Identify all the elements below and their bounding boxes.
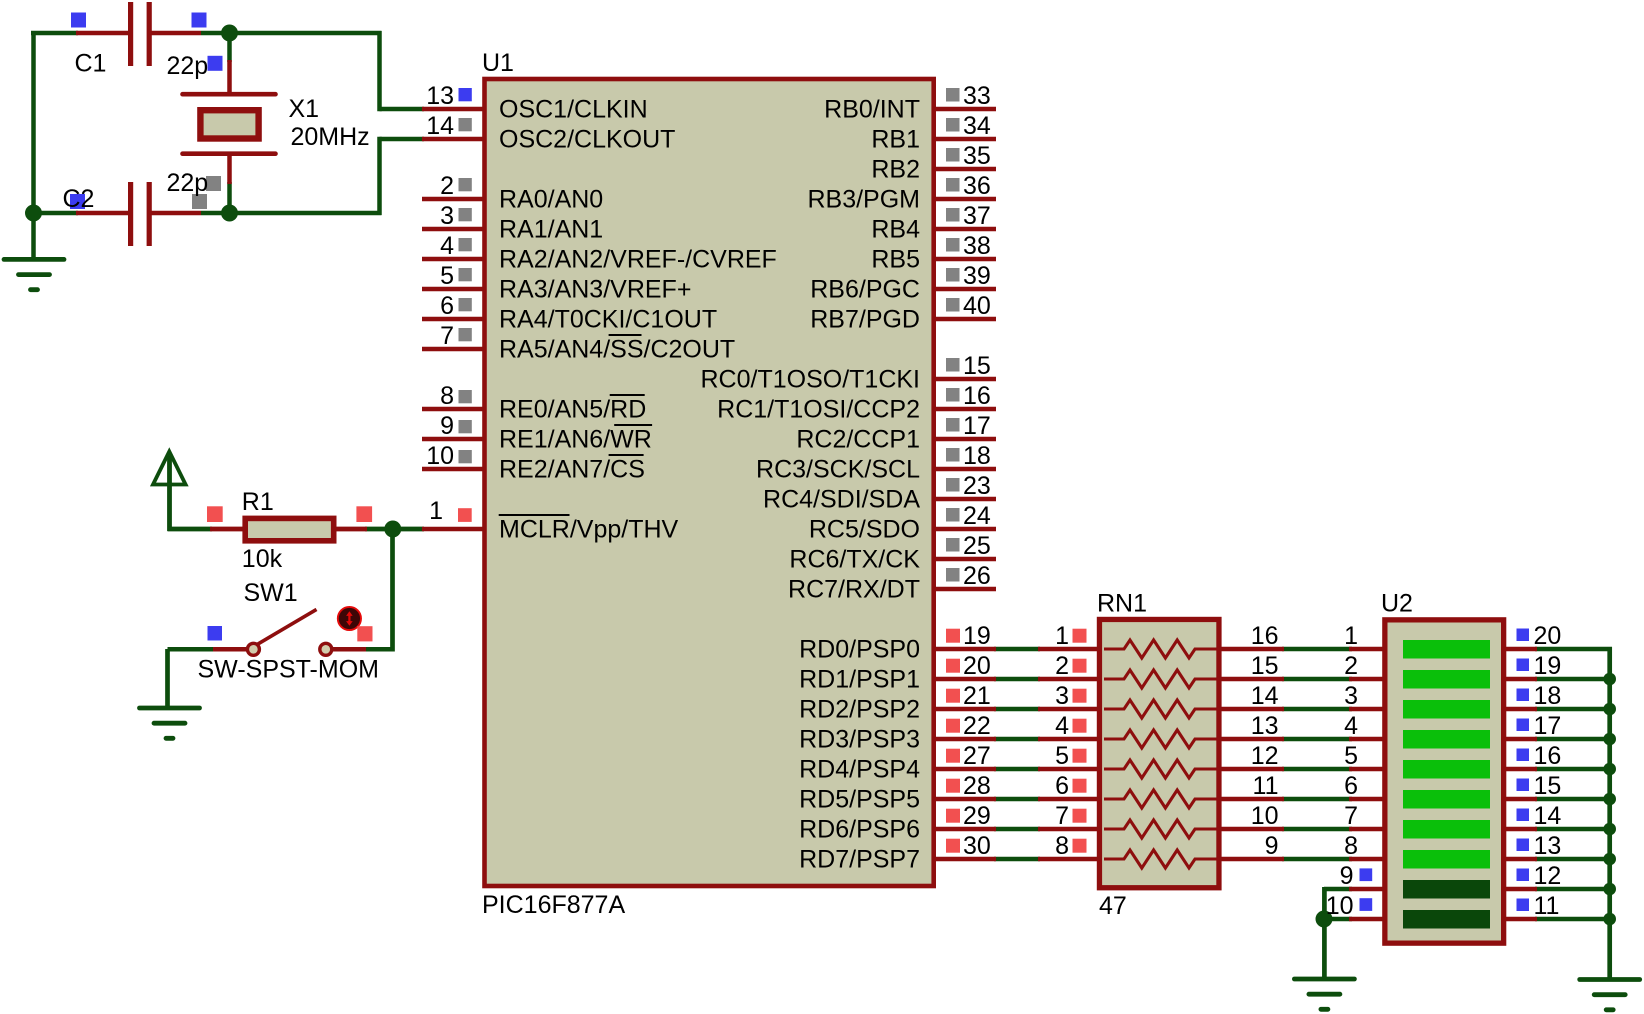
svg-text:8: 8: [440, 382, 454, 410]
svg-text:15: 15: [1534, 772, 1562, 800]
svg-text:RA2/AN2/VREF-/CVREF: RA2/AN2/VREF-/CVREF: [499, 245, 777, 273]
svg-text:RC6/TX/CK: RC6/TX/CK: [789, 545, 920, 573]
svg-text:20: 20: [1534, 622, 1562, 650]
svg-text:17: 17: [1534, 712, 1562, 740]
svg-text:10: 10: [1251, 802, 1279, 830]
svg-text:RC4/SDI/SDA: RC4/SDI/SDA: [763, 485, 920, 513]
svg-text:11: 11: [1253, 772, 1279, 800]
svg-text:RD5/PSP5: RD5/PSP5: [799, 785, 920, 813]
svg-text:9: 9: [1340, 862, 1354, 890]
svg-text:U1: U1: [482, 49, 514, 77]
svg-text:15: 15: [963, 352, 991, 380]
svg-text:12: 12: [1534, 862, 1562, 890]
svg-text:16: 16: [963, 382, 991, 410]
svg-text:6: 6: [1344, 772, 1358, 800]
svg-text:20: 20: [963, 652, 991, 680]
svg-text:20MHz: 20MHz: [291, 123, 370, 151]
svg-text:RD4/PSP4: RD4/PSP4: [799, 755, 920, 783]
svg-text:C1: C1: [75, 50, 107, 78]
svg-text:3: 3: [1055, 682, 1069, 710]
svg-text:RA0/AN0: RA0/AN0: [499, 185, 603, 213]
svg-text:14: 14: [1251, 682, 1279, 710]
svg-text:23: 23: [963, 472, 991, 500]
svg-text:4: 4: [1344, 712, 1358, 740]
svg-text:18: 18: [1534, 682, 1562, 710]
svg-text:RE0/AN5/RD: RE0/AN5/RD: [499, 395, 646, 423]
svg-text:30: 30: [963, 832, 991, 860]
svg-text:RC1/T1OSI/CCP2: RC1/T1OSI/CCP2: [717, 395, 920, 423]
svg-text:10k: 10k: [242, 545, 283, 573]
svg-text:RE1/AN6/WR: RE1/AN6/WR: [499, 425, 652, 453]
svg-text:39: 39: [963, 262, 991, 290]
svg-text:29: 29: [963, 802, 991, 830]
svg-text:RB0/INT: RB0/INT: [824, 95, 920, 123]
svg-text:4: 4: [440, 232, 454, 260]
svg-text:13: 13: [426, 82, 454, 110]
svg-text:2: 2: [1055, 652, 1069, 680]
svg-text:33: 33: [963, 82, 991, 110]
svg-text:RA1/AN1: RA1/AN1: [499, 215, 603, 243]
svg-text:16: 16: [1534, 742, 1562, 770]
svg-text:3: 3: [440, 202, 454, 230]
svg-text:17: 17: [963, 412, 991, 440]
svg-text:RC2/CCP1: RC2/CCP1: [796, 425, 920, 453]
svg-text:RD3/PSP3: RD3/PSP3: [799, 725, 920, 753]
svg-text:RB3/PGM: RB3/PGM: [807, 185, 920, 213]
svg-text:R1: R1: [242, 488, 274, 516]
svg-text:C2: C2: [63, 185, 95, 213]
svg-text:RC7/RX/DT: RC7/RX/DT: [788, 575, 920, 603]
svg-text:RD6/PSP6: RD6/PSP6: [799, 815, 920, 843]
svg-text:RB7/PGD: RB7/PGD: [810, 305, 920, 333]
svg-text:RC3/SCK/SCL: RC3/SCK/SCL: [756, 455, 920, 483]
svg-text:RB6/PGC: RB6/PGC: [810, 275, 920, 303]
svg-text:22p: 22p: [167, 169, 209, 197]
svg-text:RN1: RN1: [1097, 590, 1147, 618]
svg-text:16: 16: [1251, 622, 1279, 650]
svg-text:37: 37: [963, 202, 991, 230]
svg-text:26: 26: [963, 562, 991, 590]
svg-text:3: 3: [1344, 682, 1358, 710]
svg-text:19: 19: [963, 622, 991, 650]
svg-text:RB4: RB4: [871, 215, 920, 243]
svg-text:47: 47: [1099, 892, 1127, 920]
svg-text:4: 4: [1055, 712, 1069, 740]
svg-text:15: 15: [1251, 652, 1279, 680]
svg-text:35: 35: [963, 142, 991, 170]
svg-text:RB2: RB2: [871, 155, 920, 183]
svg-text:10: 10: [1326, 892, 1354, 920]
svg-text:U2: U2: [1381, 590, 1413, 618]
svg-text:14: 14: [1534, 802, 1562, 830]
svg-text:RA4/T0CKI/C1OUT: RA4/T0CKI/C1OUT: [499, 305, 717, 333]
svg-text:36: 36: [963, 172, 991, 200]
svg-text:RD7/PSP7: RD7/PSP7: [799, 845, 920, 873]
svg-text:38: 38: [963, 232, 991, 260]
svg-text:34: 34: [963, 112, 991, 140]
svg-text:RC5/SDO: RC5/SDO: [809, 515, 920, 543]
svg-text:12: 12: [1251, 742, 1279, 770]
svg-text:19: 19: [1534, 652, 1562, 680]
svg-text:9: 9: [1265, 832, 1279, 860]
svg-text:RB5: RB5: [871, 245, 920, 273]
svg-text:27: 27: [963, 742, 991, 770]
svg-text:22: 22: [963, 712, 991, 740]
svg-text:OSC2/CLKOUT: OSC2/CLKOUT: [499, 125, 675, 153]
svg-text:25: 25: [963, 532, 991, 560]
svg-text:RD0/PSP0: RD0/PSP0: [799, 635, 920, 663]
svg-text:14: 14: [426, 112, 454, 140]
svg-text:7: 7: [440, 322, 454, 350]
svg-text:5: 5: [1055, 742, 1069, 770]
svg-text:RD1/PSP1: RD1/PSP1: [799, 665, 920, 693]
svg-text:5: 5: [1344, 742, 1358, 770]
svg-text:2: 2: [440, 172, 454, 200]
svg-text:OSC1/CLKIN: OSC1/CLKIN: [499, 95, 648, 123]
svg-text:RC0/T1OSO/T1CKI: RC0/T1OSO/T1CKI: [701, 365, 921, 393]
svg-text:18: 18: [963, 442, 991, 470]
svg-text:13: 13: [1251, 712, 1279, 740]
svg-text:PIC16F877A: PIC16F877A: [482, 891, 625, 919]
svg-text:RA5/AN4/SS/C2OUT: RA5/AN4/SS/C2OUT: [499, 335, 735, 363]
svg-text:8: 8: [1344, 832, 1358, 860]
svg-text:RE2/AN7/CS: RE2/AN7/CS: [499, 455, 645, 483]
svg-text:10: 10: [426, 442, 454, 470]
svg-text:40: 40: [963, 292, 991, 320]
svg-text:13: 13: [1534, 832, 1562, 860]
svg-text:RD2/PSP2: RD2/PSP2: [799, 695, 920, 723]
svg-text:11: 11: [1534, 892, 1560, 920]
svg-text:SW-SPST-MOM: SW-SPST-MOM: [198, 656, 379, 684]
svg-text:7: 7: [1344, 802, 1358, 830]
svg-text:8: 8: [1055, 832, 1069, 860]
svg-text:9: 9: [440, 412, 454, 440]
svg-text:28: 28: [963, 772, 991, 800]
svg-text:1: 1: [1055, 622, 1069, 650]
svg-text:7: 7: [1055, 802, 1069, 830]
svg-text:6: 6: [1055, 772, 1069, 800]
svg-text:RB1: RB1: [871, 125, 920, 153]
svg-text:SW1: SW1: [244, 579, 298, 607]
svg-text:21: 21: [963, 682, 991, 710]
svg-text:5: 5: [440, 262, 454, 290]
svg-text:1: 1: [429, 497, 443, 525]
svg-text:MCLR/Vpp/THV: MCLR/Vpp/THV: [499, 515, 679, 543]
svg-text:6: 6: [440, 292, 454, 320]
svg-text:22p: 22p: [167, 52, 209, 80]
svg-text:1: 1: [1344, 622, 1358, 650]
svg-text:X1: X1: [289, 95, 320, 123]
svg-text:24: 24: [963, 502, 991, 530]
svg-text:RA3/AN3/VREF+: RA3/AN3/VREF+: [499, 275, 691, 303]
svg-text:2: 2: [1344, 652, 1358, 680]
